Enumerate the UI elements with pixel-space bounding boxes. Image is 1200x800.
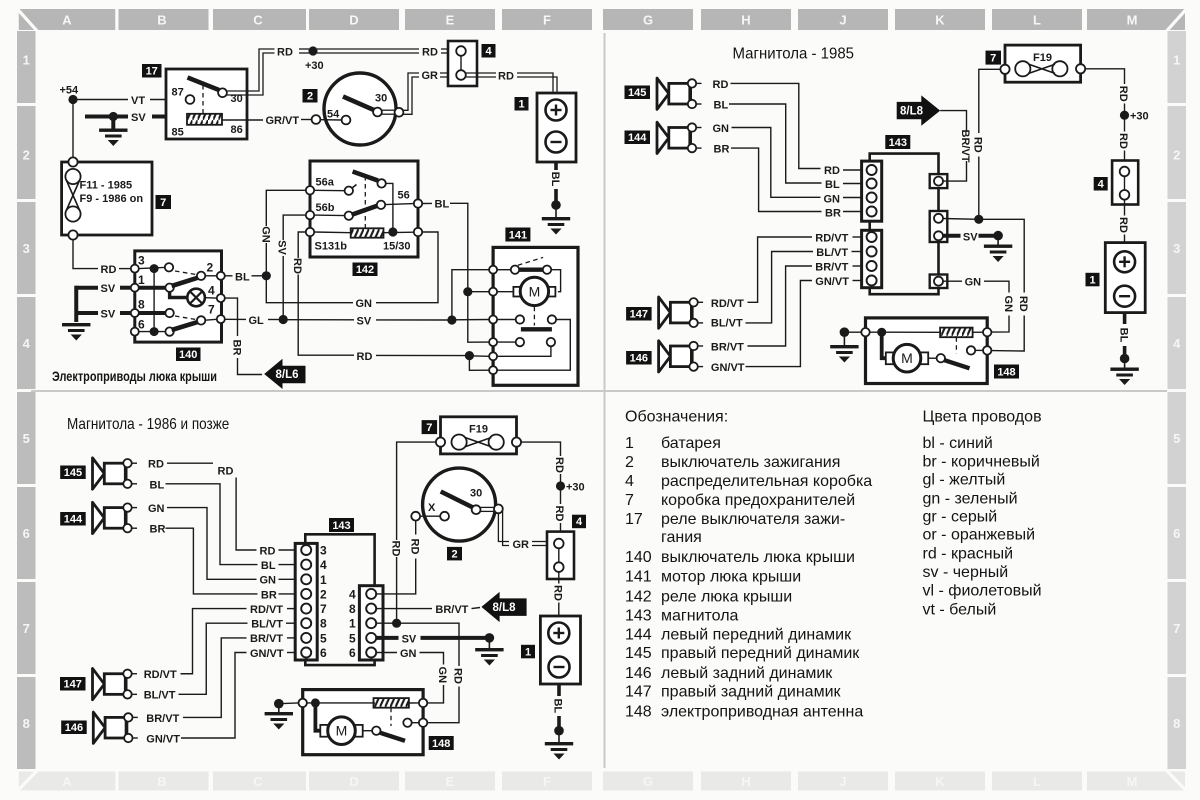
wire BR speaker144 to connector (1986) bbox=[150, 524, 302, 602]
switch 140 bbox=[131, 251, 225, 342]
svg-text:BR/VT: BR/VT bbox=[435, 604, 468, 616]
wire RD box4 to battery (double) bbox=[466, 71, 557, 92]
svg-text:BL/VT: BL/VT bbox=[251, 619, 283, 631]
ground at battery 1 bbox=[542, 200, 570, 234]
svg-text:K: K bbox=[935, 13, 945, 28]
svg-text:30: 30 bbox=[375, 93, 387, 105]
svg-text:4: 4 bbox=[576, 516, 583, 528]
frame corner cut top-right bbox=[1167, 10, 1186, 31]
svg-text:RD: RD bbox=[824, 165, 840, 177]
svg-text:гания: гания bbox=[661, 529, 702, 546]
svg-text:146: 146 bbox=[630, 353, 648, 365]
fuse F19 bbox=[1000, 45, 1085, 82]
svg-text:1: 1 bbox=[525, 646, 531, 658]
svg-text:6: 6 bbox=[349, 646, 356, 660]
radio 143 connector strip right (1986) bbox=[349, 586, 383, 660]
wire RD fuse F19 right to distribution box 4 bbox=[1085, 69, 1129, 167]
svg-text:Электроприводы люка крыши: Электроприводы люка крыши bbox=[52, 369, 217, 384]
svg-text:RD: RD bbox=[553, 457, 565, 473]
ground at antenna 148 (1986) bbox=[265, 699, 299, 730]
svg-text:4: 4 bbox=[485, 46, 492, 58]
svg-text:C: C bbox=[253, 774, 263, 789]
svg-text:M: M bbox=[901, 350, 913, 366]
wire GN/VT speaker146 to connector (1986) bbox=[146, 648, 301, 746]
svg-text:SV: SV bbox=[276, 240, 288, 255]
speaker 146 label bbox=[626, 351, 652, 365]
ground at radio SV (1986) bbox=[475, 633, 503, 665]
node +30 on RD feed bbox=[1120, 111, 1149, 123]
svg-text:144: 144 bbox=[64, 514, 83, 526]
radio 143 socket A bbox=[930, 174, 948, 188]
svg-text:распределительная коробка: распределительная коробка bbox=[661, 473, 872, 490]
svg-text:Цвета проводов: Цвета проводов bbox=[923, 409, 1042, 426]
speaker 144 label bbox=[625, 131, 651, 145]
wire SV to relay 17 pin 85 bbox=[85, 112, 187, 124]
battery 1 bbox=[537, 93, 576, 162]
svg-text:SV: SV bbox=[357, 316, 372, 328]
svg-text:RD: RD bbox=[552, 585, 564, 601]
svg-text:5: 5 bbox=[320, 631, 327, 645]
arrow 8/L6 bbox=[264, 359, 305, 389]
svg-text:141: 141 bbox=[625, 569, 652, 586]
svg-text:142: 142 bbox=[356, 264, 374, 276]
svg-text:GN: GN bbox=[400, 648, 417, 660]
svg-text:Магнитола - 1985: Магнитола - 1985 bbox=[733, 46, 855, 63]
svg-text:144: 144 bbox=[628, 132, 647, 144]
wire RD box4 to battery (1986) bbox=[552, 572, 564, 616]
svg-text:BR: BR bbox=[261, 589, 277, 601]
battery 1 (1985) bbox=[1105, 243, 1145, 313]
ground at relay 17 coil (SV) bbox=[99, 112, 127, 146]
svg-text:17: 17 bbox=[146, 66, 158, 78]
svg-text:or - оранжевый: or - оранжевый bbox=[923, 527, 1036, 544]
svg-text:BL: BL bbox=[150, 479, 165, 491]
svg-text:87: 87 bbox=[172, 87, 184, 99]
svg-text:8: 8 bbox=[320, 617, 327, 631]
svg-text:3: 3 bbox=[138, 254, 145, 268]
svg-text:G: G bbox=[643, 13, 653, 28]
svg-text:+30: +30 bbox=[566, 482, 585, 494]
speaker 147 bbox=[659, 297, 704, 328]
frame: bottom letter strip bbox=[19, 772, 1185, 791]
svg-text:F: F bbox=[543, 774, 551, 789]
svg-text:реле люка крыши: реле люка крыши bbox=[661, 589, 792, 606]
wire BL battery to ground bbox=[549, 162, 561, 202]
svg-text:146: 146 bbox=[625, 665, 652, 682]
svg-text:M: M bbox=[1127, 774, 1138, 789]
svg-text:BR/VT: BR/VT bbox=[146, 713, 179, 725]
svg-text:реле выключателя зажи-: реле выключателя зажи- bbox=[661, 511, 845, 528]
frame corner cut bottom-left bbox=[18, 771, 37, 791]
wire BR/VT speaker146 to connector 143 bbox=[711, 261, 867, 353]
svg-text:15/30: 15/30 bbox=[383, 241, 411, 253]
svg-text:F: F bbox=[543, 13, 551, 28]
svg-text:3: 3 bbox=[320, 544, 327, 558]
svg-text:F19: F19 bbox=[469, 424, 488, 436]
svg-text:A: A bbox=[62, 13, 72, 28]
svg-text:G: G bbox=[643, 774, 653, 789]
svg-text:левый передний динамик: левый передний динамик bbox=[661, 627, 852, 644]
svg-text:86: 86 bbox=[231, 124, 243, 136]
wire BL/VT speaker147 to connector (1986) bbox=[144, 619, 302, 702]
frame corner cut top-left bbox=[18, 10, 37, 31]
svg-text:1: 1 bbox=[320, 573, 327, 587]
svg-text:2: 2 bbox=[23, 148, 30, 163]
battery 1 label (1985) bbox=[1086, 273, 1100, 287]
svg-text:BR: BR bbox=[825, 207, 841, 219]
wire BL relay 56 to motor pins 2/4 bbox=[422, 199, 489, 343]
svg-text:M: M bbox=[336, 723, 348, 739]
wire SV radio pin 5 to ground (1986) bbox=[376, 633, 489, 645]
svg-text:RD: RD bbox=[148, 459, 164, 471]
wire RD fuse right to box 4 (1986) bbox=[521, 442, 565, 538]
svg-text:1: 1 bbox=[1173, 53, 1180, 68]
svg-text:правый передний динамик: правый передний динамик bbox=[661, 645, 860, 662]
svg-text:J: J bbox=[839, 774, 846, 789]
svg-text:5: 5 bbox=[349, 631, 356, 645]
svg-text:GN: GN bbox=[436, 667, 448, 684]
speaker 146 (1986) bbox=[93, 712, 138, 743]
wire SV relay 56b down to GL junction bbox=[276, 215, 306, 319]
wire BR/VT radio pin 8 to arrow 8/L8 (1986) bbox=[376, 604, 480, 616]
svg-text:8: 8 bbox=[138, 298, 145, 312]
svg-text:левый задний динамик: левый задний динамик bbox=[661, 665, 833, 682]
svg-text:142: 142 bbox=[625, 589, 652, 606]
svg-text:7: 7 bbox=[23, 621, 30, 636]
speaker 144 label (1986) bbox=[60, 512, 85, 526]
fuse F19 label 7 (1986) bbox=[422, 420, 438, 434]
distribution box 4 (1985) bbox=[1112, 161, 1138, 205]
svg-text:148: 148 bbox=[432, 738, 450, 750]
svg-text:147: 147 bbox=[64, 679, 82, 691]
wire relay 30 to RD bus (double) bbox=[227, 49, 309, 95]
svg-text:BR: BR bbox=[150, 524, 166, 536]
svg-text:BL: BL bbox=[435, 199, 450, 211]
svg-text:5: 5 bbox=[23, 431, 30, 446]
wire RD fuse to switch 140 pin 3 bbox=[73, 240, 130, 276]
wire RD ignition X to radio pin 4 (1986) bbox=[376, 521, 420, 594]
ground at battery (1986) bbox=[545, 726, 573, 760]
svg-text:RD: RD bbox=[277, 46, 293, 58]
svg-text:7: 7 bbox=[625, 492, 634, 509]
svg-text:RD: RD bbox=[498, 71, 514, 83]
svg-text:электроприводная антенна: электроприводная антенна bbox=[661, 704, 863, 721]
wire BL battery to ground (1986) bbox=[552, 684, 564, 729]
svg-text:S131b: S131b bbox=[315, 241, 348, 253]
fuse box 7 label bbox=[156, 195, 172, 209]
svg-text:SV: SV bbox=[101, 283, 116, 295]
svg-text:2: 2 bbox=[207, 261, 214, 275]
svg-text:выключатель люка крыши: выключатель люка крыши bbox=[661, 549, 855, 566]
svg-text:B: B bbox=[157, 13, 166, 28]
svg-text:GN: GN bbox=[148, 503, 165, 515]
svg-text:RD: RD bbox=[1117, 86, 1129, 102]
speaker 145 label (1986) bbox=[60, 466, 85, 480]
node +30 (1986) bbox=[556, 481, 585, 493]
svg-text:30: 30 bbox=[470, 488, 482, 500]
wire VT from +54 to relay 17 pin 87 bbox=[73, 95, 186, 107]
svg-text:8: 8 bbox=[349, 602, 356, 616]
svg-text:56a: 56a bbox=[316, 177, 335, 189]
svg-text:X: X bbox=[428, 502, 436, 514]
relay 17 label bbox=[142, 64, 162, 78]
svg-text:1: 1 bbox=[518, 99, 524, 111]
svg-text:C: C bbox=[253, 13, 263, 28]
speaker 146 bbox=[659, 341, 704, 372]
distribution box 4 bbox=[448, 41, 477, 86]
wire SV up to motor pin1 bbox=[452, 270, 489, 320]
svg-text:2: 2 bbox=[1173, 148, 1180, 163]
distribution box 4 label bbox=[482, 44, 496, 58]
wire BR/VT arrow to socket A bbox=[940, 111, 971, 182]
radio 143 socket B bbox=[930, 211, 948, 242]
ground bracket SV at switch 140 bbox=[62, 283, 130, 341]
switch 140 label bbox=[176, 348, 201, 362]
svg-text:BR/VT: BR/VT bbox=[815, 261, 848, 273]
svg-text:SV: SV bbox=[131, 112, 146, 124]
svg-text:H: H bbox=[741, 774, 750, 789]
wire GR/VT from relay 86 to ignition switch bbox=[222, 115, 312, 127]
wire RD speaker145 to connector 143 bbox=[713, 79, 867, 177]
svg-text:6: 6 bbox=[320, 646, 327, 660]
svg-text:GN: GN bbox=[260, 575, 277, 587]
svg-text:2: 2 bbox=[320, 587, 327, 601]
svg-text:GL: GL bbox=[249, 315, 265, 327]
svg-text:D: D bbox=[349, 13, 358, 28]
svg-text:GN/VT: GN/VT bbox=[711, 362, 745, 374]
svg-text:140: 140 bbox=[179, 349, 197, 361]
wire BR switch140 pin4 to arrow 8/L6 bbox=[225, 298, 262, 374]
radio 143 connector strip lower bbox=[862, 230, 882, 287]
svg-text:RD: RD bbox=[971, 137, 983, 153]
svg-text:L: L bbox=[1033, 774, 1041, 789]
svg-text:RD/VT: RD/VT bbox=[250, 604, 283, 616]
svg-text:BL/VT: BL/VT bbox=[711, 317, 743, 329]
wire RD box4 to battery (1985) bbox=[1117, 200, 1129, 243]
svg-text:8: 8 bbox=[23, 716, 30, 731]
svg-text:батарея: батарея bbox=[661, 435, 721, 452]
svg-text:RD: RD bbox=[101, 264, 117, 276]
svg-text:143: 143 bbox=[889, 137, 907, 149]
svg-text:BR: BR bbox=[231, 340, 243, 356]
svg-text:BL: BL bbox=[552, 698, 564, 713]
svg-text:8/L8: 8/L8 bbox=[493, 602, 517, 614]
wire RD fuse F19 left down to radio socket B bbox=[943, 69, 1000, 224]
svg-text:145: 145 bbox=[628, 87, 646, 99]
svg-text:147: 147 bbox=[625, 684, 652, 701]
svg-text:E: E bbox=[446, 13, 455, 28]
svg-text:85: 85 bbox=[172, 127, 184, 139]
svg-text:GN: GN bbox=[356, 298, 373, 310]
wire RD/VT speaker147 to connector (1986) bbox=[144, 604, 302, 681]
svg-text:vl - фиолетовый: vl - фиолетовый bbox=[923, 583, 1042, 600]
svg-text:GN: GN bbox=[965, 277, 982, 289]
svg-text:4: 4 bbox=[349, 587, 356, 601]
svg-text:BL: BL bbox=[714, 100, 729, 112]
wire BL speaker145 to connector 143 bbox=[714, 100, 867, 191]
svg-text:J: J bbox=[839, 13, 846, 28]
svg-text:A: A bbox=[62, 774, 72, 789]
wire GN relay 56a down and along to coil return bbox=[259, 190, 438, 310]
svg-text:4: 4 bbox=[1098, 179, 1105, 191]
svg-text:GN: GN bbox=[713, 123, 730, 135]
wire GL switch140 pin7 / SV line to motor pin3 bbox=[225, 315, 489, 328]
svg-text:M: M bbox=[529, 283, 541, 299]
wire GN speaker144 to connector 143 bbox=[713, 123, 867, 205]
svg-text:E: E bbox=[446, 774, 455, 789]
wire GN radio pin 6 to antenna coil (1986) bbox=[376, 648, 448, 703]
arrow 8/L8 right bbox=[897, 95, 941, 125]
antenna 148 (1985) bbox=[861, 318, 991, 384]
ignition switch 2 bbox=[312, 73, 404, 145]
radio 143 connector strip left (1986) bbox=[295, 543, 327, 660]
svg-text:D: D bbox=[349, 774, 358, 789]
svg-text:4: 4 bbox=[23, 336, 31, 351]
svg-text:BL: BL bbox=[235, 271, 250, 283]
frame: left number strip bbox=[17, 31, 36, 769]
svg-text:3: 3 bbox=[23, 241, 30, 256]
antenna 148 label (1986) bbox=[429, 736, 454, 750]
svg-text:RD: RD bbox=[553, 506, 565, 522]
svg-text:148: 148 bbox=[997, 367, 1015, 379]
svg-text:56b: 56b bbox=[316, 202, 335, 214]
svg-text:выключатель зажигания: выключатель зажигания bbox=[661, 454, 840, 471]
svg-text:K: K bbox=[935, 774, 945, 789]
svg-text:8/L6: 8/L6 bbox=[276, 369, 299, 381]
wire BL/VT speaker147 to connector 143 bbox=[711, 247, 867, 329]
svg-text:bl - синий: bl - синий bbox=[923, 435, 993, 452]
svg-text:1: 1 bbox=[349, 617, 356, 631]
svg-text:RD: RD bbox=[452, 668, 464, 684]
radio 143 connector strip upper bbox=[862, 161, 882, 221]
svg-text:br - коричневый: br - коричневый bbox=[923, 454, 1040, 471]
svg-text:Обозначения:: Обозначения: bbox=[625, 409, 728, 426]
speaker 147 label (1986) bbox=[60, 677, 86, 691]
radio 143 outline bbox=[870, 154, 939, 295]
wire BL switch140 pin2 to GN line bbox=[225, 271, 271, 283]
divider vertical bbox=[604, 33, 606, 768]
svg-text:7: 7 bbox=[426, 422, 432, 434]
battery 1 (1986) bbox=[540, 616, 580, 684]
svg-text:BL: BL bbox=[549, 172, 561, 187]
svg-text:BR/VT: BR/VT bbox=[959, 130, 971, 163]
ground at battery (1985) bbox=[1110, 354, 1138, 385]
svg-text:BL/VT: BL/VT bbox=[144, 690, 176, 702]
fuse box 7 (F11/F9) bbox=[62, 157, 152, 239]
svg-text:BR: BR bbox=[714, 143, 730, 155]
divider horizontal bbox=[31, 390, 1167, 392]
svg-text:7: 7 bbox=[208, 303, 215, 317]
svg-text:143: 143 bbox=[625, 608, 652, 625]
svg-text:RD: RD bbox=[1017, 296, 1029, 312]
svg-text:RD/VT: RD/VT bbox=[711, 298, 744, 310]
svg-text:7: 7 bbox=[320, 602, 327, 616]
wire GR ignition to box 4 (double) bbox=[403, 70, 456, 114]
svg-text:RD: RD bbox=[357, 351, 373, 363]
node +30 on RD bus bbox=[305, 46, 324, 72]
svg-text:7: 7 bbox=[160, 197, 166, 209]
motor 141 label bbox=[505, 228, 530, 242]
svg-text:6: 6 bbox=[23, 526, 30, 541]
wire BL speaker145 to connector (1986) bbox=[150, 479, 302, 572]
wire GN/VT speaker146 to connector 143 bbox=[711, 276, 867, 374]
svg-text:8/L8: 8/L8 bbox=[900, 106, 924, 118]
svg-text:GN: GN bbox=[1002, 296, 1014, 313]
svg-text:RD: RD bbox=[389, 541, 401, 557]
wire RD bus to box 4 (double) bbox=[277, 46, 457, 58]
wire RD junction to antenna 148 switch pin bbox=[979, 219, 1029, 351]
svg-text:vt - белый: vt - белый bbox=[923, 602, 997, 619]
svg-text:M: M bbox=[1127, 13, 1138, 28]
antenna 148 label (1985) bbox=[994, 365, 1019, 379]
svg-text:RD: RD bbox=[408, 539, 420, 555]
svg-text:H: H bbox=[741, 13, 750, 28]
wire SV radio to ground bbox=[943, 231, 997, 243]
battery 1 label (1986) bbox=[521, 645, 535, 659]
svg-text:BL: BL bbox=[1117, 328, 1129, 343]
svg-text:F19: F19 bbox=[1033, 52, 1052, 64]
svg-text:4: 4 bbox=[625, 473, 634, 490]
svg-text:RD: RD bbox=[218, 465, 234, 477]
svg-text:GR/VT: GR/VT bbox=[266, 115, 300, 127]
svg-text:GR: GR bbox=[422, 70, 439, 82]
svg-text:+30: +30 bbox=[305, 60, 324, 72]
svg-text:3: 3 bbox=[1173, 241, 1180, 256]
svg-text:GN/VT: GN/VT bbox=[815, 276, 849, 288]
svg-text:+54: +54 bbox=[60, 85, 80, 97]
svg-text:144: 144 bbox=[625, 627, 652, 644]
svg-text:Магнитола - 1986 и позже: Магнитола - 1986 и позже bbox=[67, 416, 229, 433]
antenna 148 (1986) bbox=[299, 690, 428, 755]
speaker 144 (1986) bbox=[93, 502, 138, 533]
speaker 146 label (1986) bbox=[61, 721, 86, 735]
distribution box 4 label (1985) bbox=[1094, 177, 1108, 191]
svg-text:SV: SV bbox=[963, 231, 978, 243]
svg-text:54: 54 bbox=[327, 109, 340, 121]
svg-text:4: 4 bbox=[208, 284, 215, 298]
svg-text:GN: GN bbox=[824, 193, 841, 205]
relay 142 label bbox=[353, 263, 378, 277]
svg-text:RD: RD bbox=[422, 47, 438, 59]
wire RD relay S131b down and along to motor pins 5/6 bbox=[291, 232, 489, 370]
wire RD speaker145 to connector (1986) bbox=[148, 459, 301, 558]
wire GN radio socket C to antenna coil bbox=[943, 277, 1014, 332]
svg-text:1: 1 bbox=[23, 53, 30, 68]
ignition switch 2 label (1986) bbox=[447, 547, 462, 561]
svg-text:145: 145 bbox=[64, 467, 82, 479]
svg-text:SV: SV bbox=[101, 309, 116, 321]
svg-text:4: 4 bbox=[1173, 336, 1181, 351]
radio 143 socket C bbox=[930, 275, 948, 289]
svg-text:1: 1 bbox=[625, 435, 634, 452]
svg-text:7: 7 bbox=[1173, 621, 1180, 636]
svg-text:2: 2 bbox=[307, 91, 313, 103]
svg-text:RD: RD bbox=[1117, 133, 1129, 149]
svg-text:rd - красный: rd - красный bbox=[923, 546, 1014, 563]
wire RD/VT speaker147 to connector 143 bbox=[711, 232, 867, 309]
speaker 145 bbox=[657, 78, 702, 109]
svg-text:147: 147 bbox=[630, 309, 648, 321]
svg-text:6: 6 bbox=[1173, 526, 1180, 541]
svg-text:140: 140 bbox=[625, 549, 652, 566]
svg-text:143: 143 bbox=[332, 520, 350, 532]
svg-text:17: 17 bbox=[625, 511, 643, 528]
svg-text:gr - серый: gr - серый bbox=[923, 509, 998, 526]
radio 143 outline (1986) bbox=[305, 534, 374, 665]
svg-text:7: 7 bbox=[990, 53, 996, 65]
speaker 145 label bbox=[625, 86, 651, 100]
battery 1 label bbox=[515, 97, 529, 111]
